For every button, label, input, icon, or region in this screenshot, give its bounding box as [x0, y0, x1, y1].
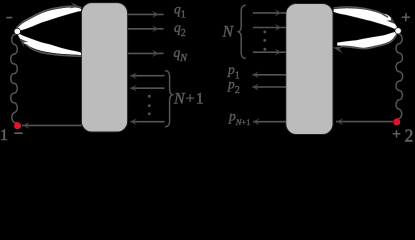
- wire p1 arrow out of right box: [252, 71, 286, 78]
- wire q1 arrow: [128, 11, 164, 18]
- svg-text:N+1: N+1: [173, 90, 205, 107]
- wire N+1 arrow 1 into left box: [130, 72, 164, 79]
- fermion arrow along lower-right crescent: [333, 35, 396, 53]
- red dot vertex 2: [393, 119, 400, 126]
- plus sign top-right: [402, 13, 410, 21]
- lower crescent right white bundle: [337, 32, 397, 49]
- wire p2 arrow: [252, 83, 286, 90]
- blob box right: [286, 4, 333, 135]
- upper crescent right white bundle: [333, 8, 397, 30]
- wire from red dot 2 to right box: [336, 118, 393, 125]
- wire q2 arrow: [128, 25, 164, 32]
- dots between N arrows: [263, 31, 266, 51]
- wire qN arrow: [128, 50, 164, 57]
- fermion arrow along upper-left crescent: [16, 2, 81, 28]
- wire pN+1 arrow: [253, 118, 286, 125]
- fermion arrow along upper-right crescent: [334, 7, 396, 24]
- minus sign bottom-left: [14, 132, 23, 134]
- minus sign top-left: [6, 17, 12, 19]
- upper crescent left white bundle: [17, 7, 82, 31]
- wire N arrow 2: [253, 24, 286, 31]
- svg-text:1: 1: [0, 127, 8, 143]
- brace right of N+1 arrows: [165, 71, 172, 127]
- wire N arrow 1 into right box: [253, 9, 286, 16]
- brace left of N arrows: [238, 5, 245, 58]
- plus sign bottom-right: [393, 130, 401, 138]
- wire N+1 arrow 2: [130, 85, 164, 92]
- svg-text:N: N: [222, 24, 235, 41]
- node right vertex: [395, 28, 401, 34]
- wire N arrow 3: [253, 49, 286, 56]
- blob box left: [81, 3, 127, 132]
- photon wavy line left: [11, 34, 18, 122]
- wire from left box to red dot 1: [22, 122, 82, 129]
- wire N+1 arrow 3: [130, 118, 164, 125]
- dots between N+1 arrows: [148, 95, 151, 115]
- fermion arrow along lower-left crescent: [19, 38, 81, 56]
- svg-text:2: 2: [405, 126, 414, 143]
- node left vertex: [14, 28, 20, 34]
- lower crescent left white bundle: [18, 33, 82, 56]
- photon wavy line right: [396, 34, 403, 119]
- red dot vertex 1: [14, 122, 21, 129]
